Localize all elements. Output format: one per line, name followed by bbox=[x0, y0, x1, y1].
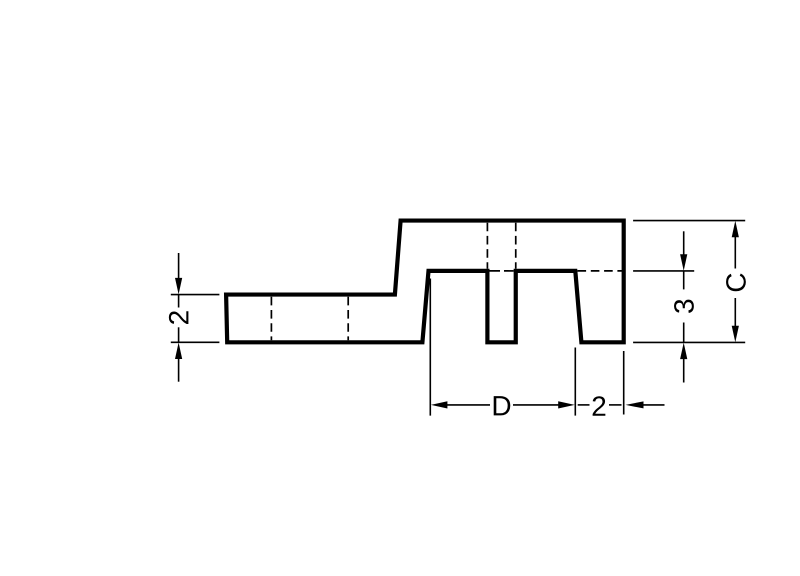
dimension 2 (bottom) label bbox=[593, 396, 606, 416]
dimension 3 lower arrow and leader bbox=[680, 343, 687, 360]
hidden line left tab vertical 2 bbox=[347, 297, 349, 341]
part outline (section profile, thick) bbox=[226, 221, 624, 343]
dimension D extension line left bbox=[429, 279, 431, 416]
hidden line left tab vertical 1 bbox=[270, 297, 272, 341]
dimension 3 line stubs bbox=[683, 271, 685, 290]
dimension 2 (bottom) line right segment bbox=[609, 404, 622, 406]
dimension 2 (bottom) outside arrow and tail bbox=[626, 401, 644, 408]
dimension 2 (left) lower arrow and leader bbox=[175, 343, 182, 360]
dimension D line right segment bbox=[513, 404, 559, 406]
dimension C arrow top bbox=[732, 221, 739, 238]
dimension 2 (bottom) line left segment bbox=[578, 404, 590, 406]
dimension C arrow bottom bbox=[732, 326, 739, 343]
hidden line slot left vertical bbox=[486, 223, 488, 269]
dimension 2 (left) line stubs bbox=[178, 295, 180, 308]
dimension C line upper segment bbox=[734, 237, 736, 269]
dimension C label bbox=[726, 274, 746, 292]
dimension 2 (bottom) extension line right bbox=[623, 351, 625, 415]
dimension 3 upper leader and arrow bbox=[683, 231, 685, 255]
hidden line slot right vertical bbox=[515, 223, 517, 269]
dimension C extension line top bbox=[633, 220, 745, 222]
dimension 2 (left) upper leader and arrow bbox=[178, 253, 180, 279]
dimension 3 extension line top bbox=[633, 270, 694, 272]
dimension 2 (left) extension line bottom bbox=[171, 341, 220, 343]
dimension D arrow right bbox=[558, 401, 575, 408]
dimension 2 (left) extension line top bbox=[171, 294, 220, 296]
dimension C line lower segment bbox=[734, 298, 736, 327]
dimension 2 (left) label bbox=[169, 311, 189, 324]
dimension 3 and C extension line bottom bbox=[633, 341, 745, 343]
dimension D line left segment bbox=[447, 404, 490, 406]
dimension D label bbox=[494, 396, 511, 415]
dimension 3 label bbox=[674, 300, 694, 313]
dimension D arrow left bbox=[431, 401, 448, 408]
hidden line across tongue bbox=[490, 270, 514, 272]
dimension D extension line right bbox=[574, 348, 576, 416]
hidden line across right leg bbox=[578, 270, 623, 272]
